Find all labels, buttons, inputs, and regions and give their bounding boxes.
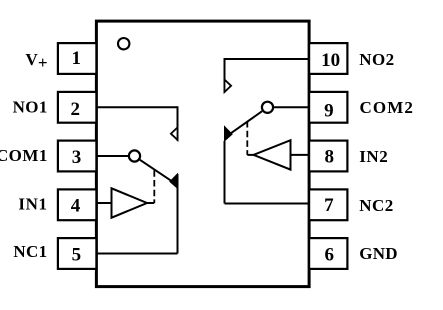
pin-1 indicator dot [118,38,129,49]
wire buffer U1B output [247,154,253,156]
switch S1 arm [140,160,172,181]
wire IN2 from pin 8 [291,154,310,156]
pin 4 box [58,189,97,220]
svg-text:10: 10 [321,50,340,71]
pin 9 box [309,92,347,123]
svg-text:NO1: NO1 [13,98,48,117]
dashed control line S1 [153,170,155,203]
svg-text:IN1: IN1 [18,194,47,213]
switch S2 NO contact (open arrowhead) [225,80,232,92]
pin 5 box [58,238,97,269]
switch S1 NC contact (filled arrowhead) [170,174,178,188]
wire NC1 from pin 5 [96,253,177,255]
pin 7 box [309,189,347,220]
svg-text:6: 6 [324,244,334,265]
switch S1 pole circle [129,150,140,161]
wire NO2 vertical stub [224,58,226,93]
switch S2 arm [230,111,262,133]
dashed control line S2 [246,121,248,155]
wire COM1 from pin 3 [96,155,129,157]
svg-text:NC2: NC2 [359,196,394,215]
wire IN1 from pin 4 [96,202,111,204]
svg-text:5: 5 [72,244,82,265]
wire NO2 from pin 10 [225,58,310,60]
svg-text:7: 7 [324,195,334,216]
wire COM2 from pin 9 [273,106,310,108]
switch S2 NC contact (filled arrowhead) [225,127,233,141]
IC package body U1 [96,21,309,287]
switch S1 NO contact (open arrowhead) [171,127,178,139]
pin 2 box [58,92,97,123]
pin 10 box [309,43,347,74]
svg-text:V+: V+ [26,50,48,72]
pin 3 box [58,141,97,172]
svg-text:1: 1 [72,48,82,69]
wire NC2 vertical stub [224,141,226,204]
svg-text:NC1: NC1 [13,242,47,261]
svg-text:COM2: COM2 [360,98,414,117]
buffer driver U1A (triangle) [112,188,148,217]
svg-text:9: 9 [324,100,334,121]
svg-text:GND: GND [359,244,398,263]
svg-text:3: 3 [72,147,82,168]
wire NO1 vertical stub [177,106,179,141]
svg-text:IN2: IN2 [359,147,388,166]
pin 1 box [58,43,97,74]
buffer driver U1B (triangle) [254,140,291,169]
pin 8 box [309,141,347,172]
svg-text:2: 2 [71,99,81,120]
wire NC1 vertical stub [177,174,179,254]
wire buffer U1A output [147,202,154,204]
svg-text:4: 4 [71,195,81,216]
svg-text:COM1: COM1 [0,146,48,165]
svg-text:8: 8 [324,146,334,167]
wire NO1 from pin 2 [96,106,177,108]
wire NC2 from pin 7 [225,203,310,205]
svg-text:NO2: NO2 [359,50,394,69]
switch S2 pole circle [262,102,273,113]
pin 6 box [309,238,347,269]
